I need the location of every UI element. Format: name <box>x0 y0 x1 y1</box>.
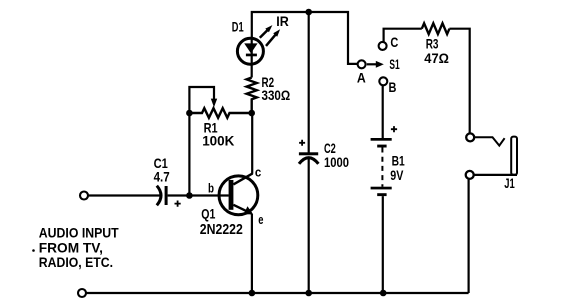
resistor R2 <box>247 78 257 114</box>
label B1 voltage <box>390 168 403 183</box>
label B1 <box>392 153 406 168</box>
svg-text:c: c <box>255 165 261 180</box>
wire D1 to R2 <box>251 65 253 78</box>
node emitter/bottom rail <box>249 290 256 297</box>
node battery/bottom rail <box>380 290 387 297</box>
wire input to C1 <box>88 194 160 196</box>
svg-text:4.7: 4.7 <box>154 169 170 185</box>
svg-text:J1: J1 <box>504 176 515 191</box>
svg-text:RADIO, ETC.: RADIO, ETC. <box>39 255 113 270</box>
svg-text:D1: D1 <box>232 19 244 35</box>
label b <box>208 181 214 196</box>
label J1 <box>504 176 515 191</box>
LED D1 <box>237 38 263 65</box>
capacitor C2 <box>299 140 319 164</box>
switch S1 arrow <box>367 61 384 68</box>
wire bottom rail <box>86 292 469 294</box>
svg-text:330Ω: 330Ω <box>262 87 291 103</box>
label C2 value <box>324 154 349 170</box>
label c <box>255 165 261 180</box>
label Q1 <box>201 206 215 222</box>
svg-text:1000: 1000 <box>324 154 349 170</box>
wire top rail <box>252 12 358 64</box>
switch S1 terminal B <box>379 77 387 85</box>
wire R3 to jack top <box>449 29 469 134</box>
wire B terminal to battery <box>382 85 384 138</box>
label A <box>357 70 366 85</box>
resistor R3 <box>422 23 450 34</box>
label C2 <box>324 141 336 156</box>
wire emitter down <box>251 214 253 293</box>
node C2/bottom rail <box>305 290 312 297</box>
wire jack lower <box>474 174 517 176</box>
jack J1 lower terminal <box>466 171 474 179</box>
label audio input <box>32 226 119 271</box>
svg-text:Q1: Q1 <box>201 206 215 222</box>
node R1 left junction <box>186 110 193 117</box>
label B <box>389 80 397 95</box>
svg-text:AUDIO INPUT: AUDIO INPUT <box>39 226 119 241</box>
label S1 <box>389 56 399 72</box>
wire C terminal to R3 <box>384 29 422 43</box>
jack J1 body <box>511 137 517 175</box>
IR emission arrows <box>260 25 280 46</box>
wire R1 left down to base node <box>188 113 190 196</box>
label R3 <box>426 36 439 52</box>
label R2 <box>262 74 275 90</box>
wire C1 to base <box>168 194 229 196</box>
label D1 <box>232 19 244 35</box>
svg-text:9V: 9V <box>390 168 403 183</box>
svg-text:2N2222: 2N2222 <box>200 221 243 238</box>
node top junction (C2 branch) <box>305 9 312 16</box>
wire battery to bottom rail <box>382 196 384 293</box>
label C <box>390 35 398 50</box>
svg-text:e: e <box>258 212 263 227</box>
wire jack to bottom rail <box>468 179 470 293</box>
capacitor C1 <box>157 186 181 207</box>
potentiometer R1 (rheostat) <box>189 87 251 118</box>
label C1 value <box>154 169 170 185</box>
svg-text:FROM TV,: FROM TV, <box>39 240 103 255</box>
switch S1 terminal C <box>379 42 387 50</box>
svg-text:B: B <box>389 80 397 95</box>
input terminal <box>80 192 88 200</box>
label R1 value <box>202 133 234 149</box>
svg-text:B1: B1 <box>392 153 406 168</box>
svg-text:A: A <box>357 70 366 85</box>
label R2 value <box>262 87 291 103</box>
label C1 <box>154 155 168 171</box>
label e <box>258 212 263 227</box>
svg-text:C: C <box>390 35 398 50</box>
label Q1 type <box>200 221 243 238</box>
jack J1 tip contact <box>474 137 505 145</box>
svg-text:47Ω: 47Ω <box>424 50 449 66</box>
transistor Q1 <box>219 173 258 214</box>
switch S1 terminal A <box>358 60 366 68</box>
ground terminal bottom left <box>78 289 86 297</box>
svg-text:IR: IR <box>276 13 289 29</box>
wire C2 lower <box>308 159 310 294</box>
label IR <box>276 13 289 29</box>
svg-text:S1: S1 <box>389 56 399 72</box>
node base junction <box>186 192 193 199</box>
svg-text:100K: 100K <box>202 133 234 149</box>
label R3 value <box>424 50 449 66</box>
node R1 right / collector junction <box>248 110 255 117</box>
wire C2 branch upper <box>308 12 310 153</box>
label R1 <box>204 119 218 135</box>
wire collector up <box>251 113 253 174</box>
jack J1 upper terminal <box>466 133 474 141</box>
svg-text:b: b <box>208 181 214 196</box>
battery B1 <box>371 126 398 196</box>
